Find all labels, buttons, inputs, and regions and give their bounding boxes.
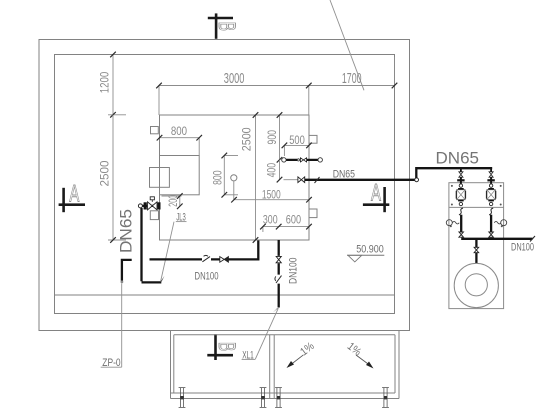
DN65 branch pipe xyxy=(122,260,132,281)
svg-text:800: 800 xyxy=(171,124,187,138)
level mark 50.900 xyxy=(347,244,384,262)
pump P2 check valve xyxy=(489,172,493,177)
svg-text:2500: 2500 xyxy=(97,160,111,186)
tick 3000 left xyxy=(156,83,162,89)
pump P2 discharge pipe xyxy=(490,215,492,233)
check valve on drain xyxy=(276,256,281,262)
tank feed drop xyxy=(475,239,477,248)
svg-text:3000: 3000 xyxy=(224,70,245,87)
anchor bolt 1 xyxy=(179,388,186,408)
svg-text:B: B xyxy=(213,342,240,351)
check valve on suction xyxy=(220,257,229,263)
riser circle in tank xyxy=(231,175,237,181)
tank outlet valve V1 xyxy=(142,197,161,210)
dimension 500 xyxy=(282,133,312,156)
tank partition xyxy=(160,156,200,195)
tick 3000/1700 mid xyxy=(306,83,312,89)
XL1 leader xyxy=(255,308,278,359)
slope label 1% left xyxy=(298,340,317,358)
branch end dot xyxy=(121,281,124,284)
DN65 elbow circle xyxy=(138,204,142,208)
svg-text:DN100: DN100 xyxy=(288,258,300,285)
trench floor inner xyxy=(171,392,396,394)
svg-text:2500: 2500 xyxy=(240,127,254,151)
dimension 1200 xyxy=(98,52,126,118)
svg-text:DN65: DN65 xyxy=(436,148,480,167)
slope label 1% right xyxy=(345,340,364,358)
trench divider wall xyxy=(269,335,271,399)
tank feed pipe xyxy=(475,253,477,263)
dimension 300 600 xyxy=(260,212,312,232)
svg-text:1500: 1500 xyxy=(262,187,281,201)
DN100 drain pipe xyxy=(278,240,280,308)
svg-text:1200: 1200 xyxy=(98,71,112,93)
svg-text:600: 600 xyxy=(286,212,302,226)
wall-mounted box xyxy=(150,168,170,188)
svg-text:800: 800 xyxy=(211,170,225,185)
slope arrow right xyxy=(356,355,374,369)
skid bolt dots xyxy=(450,185,503,227)
svg-text:B: B xyxy=(213,22,240,31)
tick 1700 right xyxy=(392,83,398,89)
dimension line top xyxy=(159,57,395,115)
header end tick xyxy=(530,236,535,242)
DN100 suction pipe xyxy=(150,241,259,260)
svg-text:XL1: XL1 xyxy=(242,350,254,362)
dimension 2500 inner xyxy=(240,112,259,243)
svg-text:DN65: DN65 xyxy=(116,209,135,253)
svg-text:500: 500 xyxy=(289,133,305,147)
svg-text:A: A xyxy=(371,180,381,206)
trench right wall inner xyxy=(394,335,396,393)
pump P1 drop xyxy=(460,168,462,172)
svg-text:1700: 1700 xyxy=(342,70,362,87)
pressure tank inner circle xyxy=(465,274,487,296)
roof leader line xyxy=(330,0,364,90)
DN65 riser pipe xyxy=(142,208,162,282)
trench top edge xyxy=(174,334,395,336)
trench left wall inner xyxy=(173,335,175,393)
pressure tank circle xyxy=(454,263,498,307)
ZP-0 leader xyxy=(121,284,123,368)
pressure gauge left xyxy=(446,220,459,226)
pump P2 xyxy=(486,177,496,205)
pump skid divider xyxy=(449,206,504,208)
DN65 header pipe xyxy=(416,168,492,178)
svg-text:1%: 1% xyxy=(345,340,364,358)
svg-text:ZP-0: ZP-0 xyxy=(102,357,120,369)
nozzle right top xyxy=(309,135,317,143)
flex connector P1 xyxy=(459,208,463,215)
tank T1 xyxy=(160,115,310,240)
check valve bottom P2 xyxy=(489,232,494,237)
section marker A right xyxy=(363,180,389,212)
DN65 elbow circle right xyxy=(415,178,419,182)
pump P1 xyxy=(456,177,466,205)
slope arrow left xyxy=(287,355,304,368)
tank feed valve xyxy=(474,247,479,252)
dimension 900 xyxy=(265,112,283,162)
svg-text:1%: 1% xyxy=(298,340,317,358)
svg-text:200: 200 xyxy=(166,195,180,207)
butterfly valve on suction xyxy=(202,255,210,261)
svg-text:900: 900 xyxy=(265,130,279,145)
JL3 leader xyxy=(161,222,174,281)
interior wall line xyxy=(55,294,395,296)
inner wall xyxy=(55,55,395,314)
nozzle right bottom xyxy=(309,209,317,218)
pump skid box xyxy=(449,183,504,309)
section marker A left xyxy=(59,181,85,212)
anchor bolt 2 xyxy=(260,388,267,408)
anchor bolt 4 xyxy=(382,388,389,408)
butterfly valve on drain xyxy=(275,276,282,283)
dimension 200 xyxy=(162,193,183,209)
pump P1 discharge pipe xyxy=(460,215,462,233)
dimension 800 top xyxy=(157,124,202,155)
dimension 2500 left xyxy=(97,115,126,243)
anchor bolt 3 xyxy=(275,388,282,408)
trench left wall xyxy=(170,331,172,399)
DN100 discharge header xyxy=(461,238,532,240)
section marker B bottom xyxy=(207,334,239,360)
nozzle left top xyxy=(151,127,159,134)
dimension 1500 xyxy=(231,187,312,202)
svg-text:DN100: DN100 xyxy=(511,241,534,253)
svg-text:DN100: DN100 xyxy=(195,270,219,282)
svg-text:400: 400 xyxy=(264,163,278,178)
svg-text:DN65: DN65 xyxy=(333,168,355,180)
svg-text:50.900: 50.900 xyxy=(356,244,384,256)
dimension 400 xyxy=(264,160,282,183)
trench right wall xyxy=(398,331,400,399)
outer wall xyxy=(39,40,410,331)
svg-text:300: 300 xyxy=(263,212,278,226)
pump P2 drop xyxy=(490,168,492,172)
riser extension line xyxy=(233,181,235,200)
flex connector P2 xyxy=(489,208,493,215)
pump P1 check valve xyxy=(459,172,463,177)
trench floor outer xyxy=(171,398,400,400)
svg-text:A: A xyxy=(69,181,79,207)
section marker B top xyxy=(208,13,240,38)
dimension 800 mid xyxy=(211,153,238,198)
check valve bottom P1 xyxy=(459,232,464,237)
pressure gauge right xyxy=(494,220,506,226)
trench divider wall 2 xyxy=(273,335,275,399)
DN65 outlet pipe xyxy=(284,177,415,183)
tank overflow run xyxy=(282,158,323,162)
valve drain box xyxy=(150,211,158,220)
